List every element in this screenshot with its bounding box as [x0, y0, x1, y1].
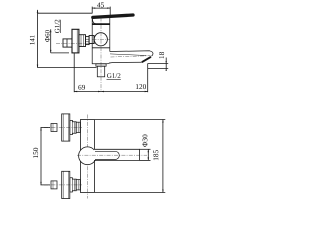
outlet collar below body [96, 64, 106, 66]
lower connector centerline [44, 184, 82, 186]
lower connector collar to body [76, 180, 80, 190]
dim 120 right extension line (outlet axis) [147, 64, 149, 93]
upper connector centerline [44, 127, 82, 129]
wall axis centerline (side view) [56, 43, 95, 45]
body vertical centerline (dashed) [100, 18, 102, 92]
upper union nut [70, 120, 76, 134]
dim 45 right extension line [109, 7, 111, 16]
dim 120 line [101, 91, 148, 93]
dim phi30 extension lines [140, 148, 151, 150]
upper escutcheon [62, 114, 70, 141]
dim 185 line [162, 120, 164, 193]
dim 18 bottom extension line [148, 67, 169, 69]
dim 141 top extension line [38, 12, 93, 14]
label G1/2 side-view (rotated) [55, 20, 60, 33]
dim 141 bottom extension line [38, 67, 97, 69]
label G1/2 bottom [107, 73, 120, 78]
ball joint (front view) [79, 147, 97, 165]
dim 18 top extension line [148, 63, 169, 65]
escutcheon phi60 (side view) [72, 29, 79, 53]
lever grip capsule (front view) [95, 151, 119, 159]
spout aerator hatch band [142, 57, 151, 62]
wall thread pipe G1/2 (side view) [63, 39, 72, 47]
ball horizontal centerline (dashed) [93, 38, 110, 40]
dim 69 left extension line (wall plane) [73, 54, 75, 93]
threaded collar (side view) [86, 37, 90, 45]
spout inner line [110, 54, 146, 56]
dim 69 line [74, 91, 101, 93]
union nut (side view) [79, 35, 86, 47]
front body centerline (dashed vertical) [87, 115, 89, 199]
upper wall nipple [51, 124, 57, 132]
dim 141 line [37, 10, 39, 68]
dim phi30 line [147, 149, 149, 160]
dim 150 bottom extension line [41, 184, 51, 186]
dim phi60 bottom extension line [51, 52, 69, 54]
lever bar (side view) [93, 15, 133, 17]
dim 120 text [136, 84, 146, 89]
lower wall nipple [51, 181, 57, 189]
spout (side view) [107, 51, 153, 64]
dim phi30 text (rotated) [142, 135, 147, 147]
dim 45 line [92, 7, 110, 9]
body top thick line (side view) [92, 23, 110, 25]
spout dashed centerline [111, 56, 151, 57]
dim 18 text (rotated) [159, 52, 164, 58]
dim 45 text [97, 2, 104, 7]
dim 150 line [40, 128, 42, 185]
lower escutcheon [62, 171, 70, 198]
front body [81, 120, 95, 193]
dim 185 top extension line [95, 119, 165, 121]
dim 185 bottom extension line [95, 192, 165, 194]
lever (front view) [94, 149, 140, 160]
upper connector collar to body [76, 122, 80, 132]
lever rear curve [92, 18, 95, 24]
lever centerline (dashed horizontal) [77, 154, 147, 156]
dim 150 text (rotated) [33, 148, 38, 158]
dim 141 text (rotated) [30, 35, 34, 44]
dim 45 left extension line [91, 7, 93, 14]
dim phi60 line [50, 29, 52, 53]
body (side view) [92, 16, 110, 63]
dim 69 text [78, 85, 85, 90]
dim 18 line [165, 58, 167, 70]
lower union nut [70, 178, 76, 192]
spout tip face line [140, 61, 143, 64]
dim phi60 text (rotated) [45, 30, 50, 42]
body internal line [92, 47, 110, 49]
outlet nipple G1/2 [97, 66, 104, 77]
dim 185 text (rotated) [153, 150, 158, 160]
body-side connector rect (side view) [89, 36, 94, 44]
dim 150 top extension line [41, 127, 51, 129]
cartridge circle (side view) [94, 33, 107, 46]
